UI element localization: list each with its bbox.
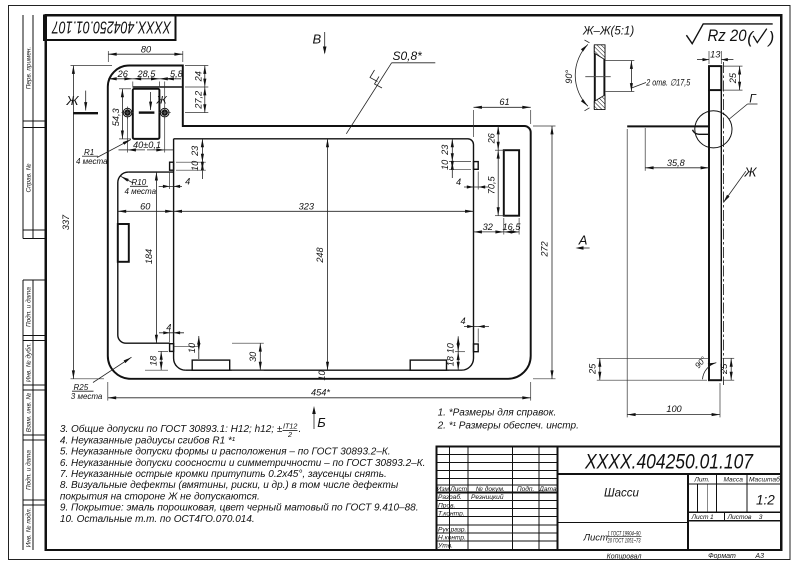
notes 3-10 xyxy=(60,422,425,525)
svg-text:Резницкий: Резницкий xyxy=(471,493,504,501)
top stamp box xyxy=(44,15,175,40)
svg-text:Б: Б xyxy=(317,415,326,430)
svg-text:337: 337 xyxy=(61,214,71,230)
svg-text:Т.контр.: Т.контр. xyxy=(438,510,465,517)
svg-text:4: 4 xyxy=(460,316,465,326)
svg-text:): ) xyxy=(767,28,775,47)
svg-text:Копировал: Копировал xyxy=(607,553,642,560)
leader 2 отв. ⌀17,5 xyxy=(632,77,691,88)
tab inner bend line xyxy=(133,86,183,88)
bend relief tab upper right xyxy=(474,162,479,170)
svg-text:4: 4 xyxy=(166,322,171,332)
svg-text:18: 18 xyxy=(149,355,159,366)
dim 272 xyxy=(533,126,556,379)
svg-text:4. Неуказанные радиусы сгибов: 4. Неуказанные радиусы сгибов R1 *¹ xyxy=(60,434,236,446)
svg-text:покрытия на стороне Ж не допус: покрытия на стороне Ж не допускаются. xyxy=(60,491,260,502)
svg-text:4 места: 4 места xyxy=(76,157,108,166)
svg-text:2: 2 xyxy=(287,430,292,439)
label Ж leader xyxy=(723,165,757,203)
left margin column boxes lower xyxy=(23,280,46,550)
svg-text:Перв. примен.: Перв. примен. xyxy=(25,47,32,89)
svg-text:16,5: 16,5 xyxy=(503,222,522,232)
svg-text:35,8: 35,8 xyxy=(667,158,686,168)
svg-text:8. Визуальные дефекты (вмятины: 8. Визуальные дефекты (вмятины, риски, и… xyxy=(60,479,399,491)
dim 10 lower left xyxy=(187,336,199,359)
hatched wedge top xyxy=(594,45,605,60)
svg-text:10: 10 xyxy=(187,342,197,353)
svg-text:30: 30 xyxy=(248,351,258,362)
side wall bottom edge xyxy=(708,379,722,381)
svg-text:А3: А3 xyxy=(754,553,764,560)
svg-text:В: В xyxy=(313,32,322,47)
svg-text:Rz 20: Rz 20 xyxy=(708,26,747,45)
svg-text:184: 184 xyxy=(144,249,154,264)
svg-text:2. *¹ Размеры обеспеч. инстр.: 2. *¹ Размеры обеспеч. инстр. xyxy=(437,420,579,432)
svg-text:26: 26 xyxy=(117,69,129,79)
chassis outer outline xyxy=(108,66,531,379)
dim 27,2 xyxy=(185,87,208,113)
svg-text:9. Покрытие: эмаль порошковая,: 9. Покрытие: эмаль порошковая, цвет черн… xyxy=(60,503,419,514)
notes 1-2 xyxy=(437,407,579,431)
svg-text:4: 4 xyxy=(185,176,190,186)
dim 40±0,1 xyxy=(119,118,174,153)
svg-text:54,3: 54,3 xyxy=(111,107,121,126)
thickness leader S0,8* xyxy=(346,49,435,134)
section mark Ж middle xyxy=(139,92,168,113)
dim 337 xyxy=(61,66,112,379)
svg-text:Инв. № дубл.: Инв. № дубл. xyxy=(24,343,32,382)
svg-text:Пров.: Пров. xyxy=(438,502,456,509)
sheet edge right xyxy=(603,45,605,109)
svg-text:70,5: 70,5 xyxy=(486,175,496,194)
slot in left flange xyxy=(118,224,129,262)
svg-text:Изм: Изм xyxy=(437,486,450,493)
svg-text:248: 248 xyxy=(315,246,325,263)
svg-text:2 отв. ∅17,5: 2 отв. ∅17,5 xyxy=(646,77,691,87)
svg-text:Подп. и дата: Подп. и дата xyxy=(24,287,32,327)
svg-text:.: . xyxy=(299,424,302,435)
90° angle arc xyxy=(564,40,590,111)
dim 30 xyxy=(232,343,264,370)
svg-text:1. *Размеры для справок.: 1. *Размеры для справок. xyxy=(438,407,557,418)
svg-text:Ж: Ж xyxy=(156,95,168,107)
svg-text:90°: 90° xyxy=(564,70,574,84)
dim 10 right xyxy=(440,159,471,178)
svg-text:20 ГОСТ 1051–73: 20 ГОСТ 1051–73 xyxy=(607,538,641,544)
roughness mark Rz 20 xyxy=(686,24,774,47)
top flange inner line xyxy=(174,139,474,145)
svg-text:Лит.: Лит. xyxy=(693,477,710,484)
svg-text:R1: R1 xyxy=(84,148,94,157)
hole centerline xyxy=(585,76,610,78)
svg-text:Масштаб: Масштаб xyxy=(749,476,780,484)
surface Ж chain line xyxy=(723,62,725,385)
dim 24 xyxy=(185,66,208,88)
svg-text:Лист: Лист xyxy=(691,514,709,521)
detail circle Г xyxy=(695,111,732,148)
svg-text:3. Общие допуски по ГОСТ 30893: 3. Общие допуски по ГОСТ 30893.1: Н12; h… xyxy=(60,423,283,435)
slot in right flange xyxy=(504,150,519,216)
svg-text:10: 10 xyxy=(446,342,456,353)
svg-text:Ж–Ж(5:1): Ж–Ж(5:1) xyxy=(582,26,634,38)
svg-text:25: 25 xyxy=(728,72,738,84)
svg-text:61: 61 xyxy=(499,97,509,107)
dim 54,3 xyxy=(111,89,131,139)
svg-text:Рук.разр.: Рук.разр. xyxy=(438,527,467,534)
leader R10 4 места xyxy=(121,176,157,196)
svg-text:А: А xyxy=(578,232,588,247)
view arrow А xyxy=(576,232,590,250)
svg-text:1: 1 xyxy=(710,514,714,521)
dim 13 xyxy=(697,50,733,64)
dim 4 left upper xyxy=(159,172,191,189)
dim 248 xyxy=(315,139,327,370)
base plate edge xyxy=(627,125,709,127)
svg-text:23: 23 xyxy=(440,144,450,156)
svg-text:№ докум.: № докум. xyxy=(476,485,505,493)
dim 100 xyxy=(627,129,720,417)
svg-text:40±0,1: 40±0,1 xyxy=(133,140,161,150)
dim 4 right upper xyxy=(456,172,488,190)
side wall left edge xyxy=(708,90,710,380)
dim 80 xyxy=(108,44,183,62)
dim 70,5 xyxy=(486,150,505,216)
left margin column boxes upper xyxy=(23,15,46,238)
svg-text:Разраб.: Разраб. xyxy=(438,493,462,501)
svg-text:Утв.: Утв. xyxy=(437,543,453,550)
svg-text:Лист: Лист xyxy=(583,533,609,544)
svg-text:24: 24 xyxy=(194,71,204,82)
svg-text:4: 4 xyxy=(456,177,461,187)
svg-text:5,8: 5,8 xyxy=(170,69,184,79)
svg-text:Дата: Дата xyxy=(538,486,557,493)
dim 4 lower right xyxy=(460,316,489,343)
rectangular cutout 28.5x54.3 xyxy=(133,89,160,139)
dim 18 right xyxy=(446,352,465,371)
svg-text:Ж: Ж xyxy=(744,165,758,180)
dim 454* xyxy=(108,382,531,401)
svg-text:80: 80 xyxy=(141,44,152,54)
svg-text:Шасси: Шасси xyxy=(604,488,639,500)
side wall top thick section xyxy=(709,66,721,90)
svg-text:10. Остальные т.т. по ОСТ4ГО.0: 10. Остальные т.т. по ОСТ4ГО.070.014. xyxy=(60,514,255,525)
svg-text:Инв. № подл.: Инв. № подл. xyxy=(24,508,32,548)
dim 61 xyxy=(474,97,531,137)
svg-text:4 места: 4 места xyxy=(125,187,157,196)
bend relief tab lower right xyxy=(474,344,479,352)
dim 323 xyxy=(174,201,474,211)
svg-text:Подп. и дата: Подп. и дата xyxy=(24,450,32,490)
dims 32 and 16,5 xyxy=(474,218,522,235)
dim 10 bottom flange xyxy=(317,370,327,381)
left flange inner bend line xyxy=(118,172,170,343)
svg-text:272: 272 xyxy=(540,241,550,257)
svg-text:7. Неуказанные острые кромки п: 7. Неуказанные острые кромки притупить 0… xyxy=(60,469,387,480)
material xyxy=(583,531,642,544)
svg-text:Формат: Формат xyxy=(708,553,736,560)
section mark Ж left xyxy=(66,91,99,114)
svg-text:3 места: 3 места xyxy=(71,392,103,401)
title block header texts xyxy=(437,476,780,550)
svg-text:18: 18 xyxy=(446,355,456,366)
svg-text:27,2: 27,2 xyxy=(194,91,204,110)
svg-text:Взам. инв. №: Взам. инв. № xyxy=(25,393,32,433)
dim 18 left xyxy=(145,351,168,370)
svg-text:454*: 454* xyxy=(311,388,330,398)
inner wall line left (x=173.6) xyxy=(174,139,186,370)
svg-text:Подп.: Подп. xyxy=(517,485,535,493)
svg-text:323: 323 xyxy=(299,201,315,211)
svg-text:10: 10 xyxy=(190,160,200,171)
svg-text:60: 60 xyxy=(140,201,151,211)
leader R25 3 места xyxy=(71,357,132,401)
svg-text:25: 25 xyxy=(587,363,597,375)
view arrow Б xyxy=(312,406,326,430)
svg-text:28,5: 28,5 xyxy=(136,69,156,79)
dim row 26 / 28,5 / 5,8 xyxy=(108,69,183,107)
svg-text:Н.контр.: Н.контр. xyxy=(438,535,466,542)
svg-text:25: 25 xyxy=(719,363,729,375)
dim 23 left xyxy=(176,139,206,162)
dim 4 lower left xyxy=(159,322,184,342)
svg-text:XXXX.404250.01.107: XXXX.404250.01.107 xyxy=(51,18,172,38)
tab on bottom bend line left xyxy=(192,360,230,370)
svg-text:S0,8*: S0,8* xyxy=(393,49,423,63)
dim 35,8 xyxy=(645,128,709,171)
svg-text:Ж: Ж xyxy=(66,93,80,108)
dim 184 xyxy=(144,172,156,343)
svg-text:Масса: Масса xyxy=(723,477,743,484)
bend relief tab upper left xyxy=(170,162,174,170)
svg-text:6. Неуказанные допуски сооснос: 6. Неуказанные допуски соосности и симме… xyxy=(60,458,425,469)
countersunk hole right xyxy=(159,107,171,119)
bend 90° angle dim xyxy=(693,354,716,379)
base plate inner bend line xyxy=(693,130,710,135)
dim 10 left xyxy=(176,160,206,179)
countersunk hole left xyxy=(122,107,134,119)
view arrow В xyxy=(313,32,327,55)
hatched wedge bottom xyxy=(594,95,605,110)
dim 25 top xyxy=(723,66,743,90)
dim 60 xyxy=(118,201,174,211)
hole diameter dim xyxy=(606,61,635,92)
thin step line near lower-left tab xyxy=(174,345,199,347)
svg-text:XXXX.404250.01.107: XXXX.404250.01.107 xyxy=(584,450,754,473)
dim 10 lower right xyxy=(446,336,459,353)
svg-text:Справ. №: Справ. № xyxy=(25,163,32,192)
label Г leader xyxy=(729,92,757,120)
side wall right edge xyxy=(720,90,722,380)
dim 25 bottom left xyxy=(587,358,708,380)
svg-text:10: 10 xyxy=(317,370,327,381)
leader R1 4 места xyxy=(76,140,131,166)
dim 23 right xyxy=(440,139,471,162)
svg-text:13: 13 xyxy=(710,50,721,60)
bend relief tab lower left xyxy=(170,344,174,352)
dim 25 bottom right xyxy=(719,358,734,380)
svg-text:5. Неуказанные допуски формы и: 5. Неуказанные допуски формы и расположе… xyxy=(60,446,391,458)
svg-text:3: 3 xyxy=(759,514,763,521)
svg-text:100: 100 xyxy=(666,404,682,414)
svg-text:10: 10 xyxy=(440,159,450,170)
sheet edge left xyxy=(594,45,596,109)
svg-text:Листов: Листов xyxy=(726,514,752,521)
bottom inner bend line xyxy=(186,369,462,371)
svg-text:1:2: 1:2 xyxy=(756,493,775,508)
svg-text:32: 32 xyxy=(483,222,493,232)
tab on bottom bend line right xyxy=(410,360,446,370)
svg-text:Лист: Лист xyxy=(449,486,467,493)
inner wall line right (x=473.5) xyxy=(462,145,474,371)
svg-text:23: 23 xyxy=(190,145,200,157)
svg-text:R25: R25 xyxy=(74,383,89,392)
step line between left flange and wall xyxy=(128,171,173,173)
dim 26 right xyxy=(486,126,505,150)
svg-text:26: 26 xyxy=(486,132,496,144)
